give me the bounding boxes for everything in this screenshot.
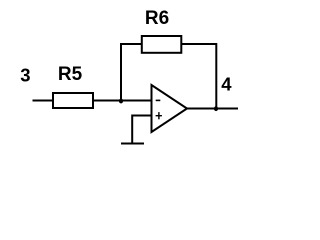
junction: output node [214,106,218,111]
junction: inverting input node [119,99,123,104]
wire: input from node 3 to op-amp inverting input [33,100,153,102]
wire: output from op-amp to node 4 [187,108,238,110]
svg-text:4: 4 [221,74,232,95]
wire: ground drop [131,115,133,144]
svg-text:R5: R5 [58,64,83,85]
op-amp U1 [152,85,188,132]
op-amp plus symbol [156,112,162,119]
resistor R6 [142,36,182,53]
svg-text:3: 3 [20,65,30,86]
resistor R5 [53,93,93,108]
svg-text:R6: R6 [145,8,169,29]
wire: non-inverting input [132,115,152,117]
ground [121,143,144,145]
wire: feedback top horizontal [120,43,216,45]
wire: feedback vertical left [120,44,122,101]
op-amp minus symbol [156,99,161,101]
wire: feedback vertical right [215,43,217,109]
